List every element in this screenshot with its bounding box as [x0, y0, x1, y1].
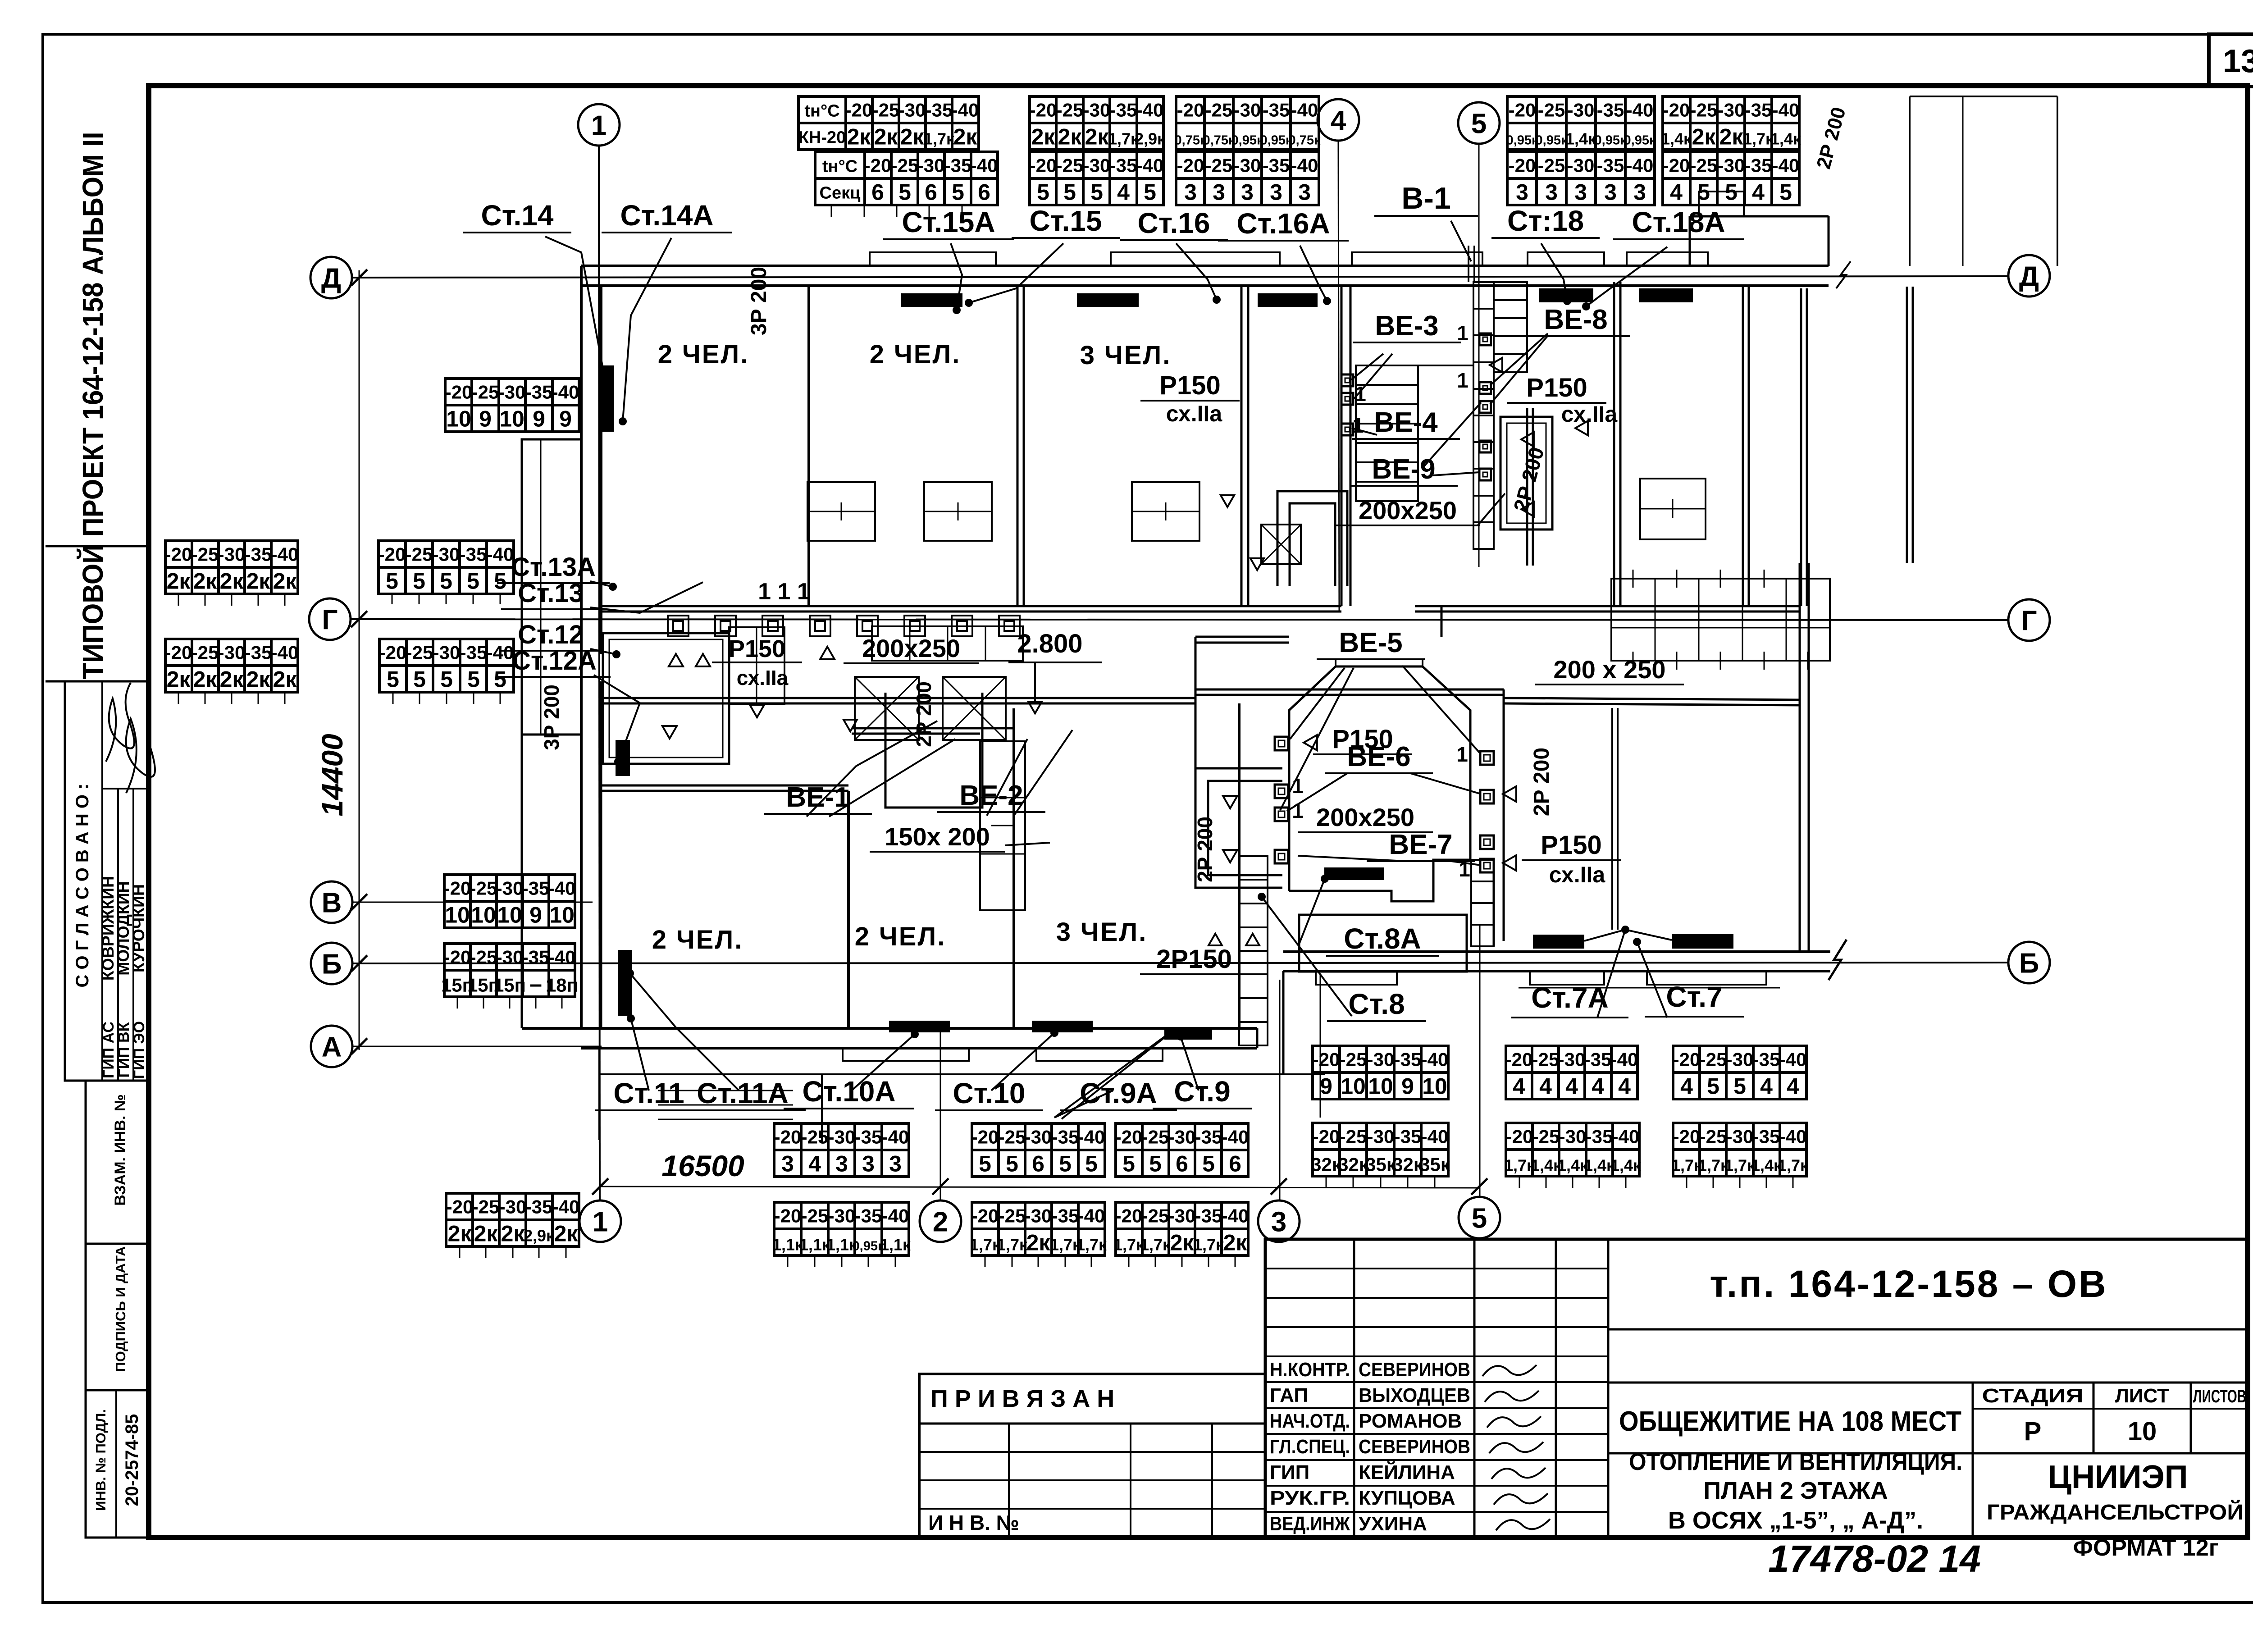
svg-text:-30: -30 — [917, 155, 945, 176]
leader St.16 — [1176, 243, 1217, 300]
svg-text:-40: -40 — [1421, 1126, 1449, 1147]
svg-text:2Р 200: 2Р 200 — [1530, 748, 1554, 816]
svg-text:-40: -40 — [271, 544, 299, 565]
label St.8 — [1327, 988, 1426, 1021]
svg-text:10: 10 — [1422, 1074, 1447, 1099]
svg-text:-20: -20 — [1313, 1126, 1340, 1147]
entrance steps — [658, 1090, 793, 1091]
P-duct right stair niche — [1500, 417, 1552, 529]
svg-text:-35: -35 — [855, 1127, 882, 1148]
svg-text:-35: -35 — [926, 100, 953, 121]
svg-text:1,4к: 1,4к — [1610, 1156, 1642, 1175]
svg-text:1: 1 — [1457, 321, 1469, 345]
svg-text:3: 3 — [1213, 180, 1225, 205]
svg-text:-30: -30 — [1567, 100, 1595, 121]
axis circle 3 bottom — [1258, 1200, 1300, 1242]
svg-text:-30: -30 — [218, 544, 246, 565]
leader V-1 — [1451, 221, 1471, 261]
vent shaft column — [1473, 282, 1494, 549]
svg-text:-40: -40 — [1291, 100, 1318, 121]
step wall between bottom sections — [1282, 971, 1285, 1074]
svg-text:СЕВЕРИНОВ: СЕВЕРИНОВ — [1359, 1436, 1470, 1458]
svg-text:-40: -40 — [1136, 100, 1164, 121]
svg-text:3: 3 — [1270, 180, 1282, 205]
label 200x250 u — [844, 634, 979, 663]
svg-text:2к: 2к — [1719, 124, 1744, 150]
closet box 1 — [807, 482, 875, 541]
svg-text:4: 4 — [1513, 1074, 1525, 1099]
svg-text:2к: 2к — [246, 667, 271, 692]
svg-text:0,95к: 0,95к — [1506, 133, 1538, 148]
svg-text:1: 1 — [1457, 369, 1469, 392]
svg-text:200х250: 200х250 — [1316, 803, 1414, 831]
svg-text:-30: -30 — [828, 1127, 856, 1148]
svg-text:-20: -20 — [1177, 100, 1204, 121]
vent squares VE567 left column — [1275, 737, 1288, 750]
axis circle A left — [311, 1026, 352, 1067]
svg-text:ВЕ-9: ВЕ-9 — [1372, 454, 1435, 485]
label St.13A — [497, 552, 610, 583]
svg-text:ОБЩЕЖИТИЕ НА 108 МЕСТ: ОБЩЕЖИТИЕ НА 108 МЕСТ — [1619, 1406, 1961, 1437]
svg-text:ГАП: ГАП — [1270, 1384, 1308, 1406]
svg-text:2к: 2к — [874, 124, 898, 150]
axis line 2 vertical — [940, 1032, 941, 1200]
svg-text:6: 6 — [871, 180, 884, 205]
svg-text:5: 5 — [1059, 1151, 1072, 1177]
svg-text:Ст.13: Ст.13 — [518, 579, 584, 608]
svg-text:3Р 200: 3Р 200 — [540, 685, 563, 750]
axis circle V left — [311, 881, 352, 923]
svg-text:5: 5 — [494, 667, 506, 692]
label St.12 — [501, 620, 600, 651]
svg-text:5: 5 — [467, 667, 480, 692]
label VE-4 — [1352, 407, 1460, 439]
svg-text:-35: -35 — [1195, 1205, 1222, 1227]
svg-text:ПЛАН 2 ЭТАЖА: ПЛАН 2 ЭТАЖА — [1703, 1477, 1888, 1504]
svg-text:-35: -35 — [944, 155, 972, 176]
svg-text:-40: -40 — [1222, 1205, 1249, 1227]
svg-text:ГИП АС: ГИП АС — [100, 1022, 117, 1078]
svg-text:3: 3 — [1604, 180, 1617, 205]
svg-text:1 1 1: 1 1 1 — [758, 579, 810, 605]
label St.16 — [1120, 207, 1228, 240]
svg-text:5: 5 — [440, 667, 453, 692]
bar link 7 — [1584, 930, 1672, 941]
svg-text:ВЗАМ. ИНВ. №: ВЗАМ. ИНВ. № — [112, 1094, 129, 1206]
table bot10 — [1506, 1123, 1639, 1176]
svg-text:-40: -40 — [1222, 1127, 1249, 1148]
axis circle D right — [2008, 255, 2050, 297]
label St.12A — [498, 646, 611, 677]
svg-text:-20: -20 — [1177, 155, 1204, 176]
svg-text:tн°C: tн°C — [822, 157, 857, 176]
svg-text:-25: -25 — [192, 544, 219, 565]
label 2R150 — [1140, 945, 1248, 974]
svg-text:-35: -35 — [522, 878, 550, 899]
leader St.12A — [594, 675, 640, 762]
svg-text:6: 6 — [925, 180, 937, 205]
room1 top wall — [599, 785, 848, 787]
svg-text:18п: 18п — [546, 975, 578, 996]
svg-text:2: 2 — [933, 1206, 948, 1237]
svg-text:-40: -40 — [487, 642, 514, 663]
svg-text:-20: -20 — [1115, 1127, 1143, 1148]
svg-text:-20: -20 — [1313, 1049, 1340, 1070]
svg-text:5: 5 — [413, 569, 425, 594]
svg-text:10: 10 — [445, 903, 470, 928]
svg-text:5: 5 — [1149, 1151, 1162, 1177]
right rooms east wall (double) — [1906, 287, 1908, 563]
svg-text:3 ЧЕЛ.: 3 ЧЕЛ. — [1056, 917, 1148, 947]
svg-text:ГИП ЭО: ГИП ЭО — [131, 1021, 148, 1079]
svg-text:2к: 2к — [847, 124, 871, 150]
leader St.9A — [1054, 1033, 1170, 1118]
svg-text:Ст.14А: Ст.14А — [620, 199, 713, 232]
table left4 — [379, 639, 514, 692]
label VE-7 — [1367, 829, 1475, 861]
svg-text:-35: -35 — [522, 947, 550, 968]
svg-text:КУПЦОВА: КУПЦОВА — [1359, 1487, 1455, 1509]
svg-text:2 ЧЕЛ.: 2 ЧЕЛ. — [855, 922, 946, 951]
svg-text:Г: Г — [322, 604, 337, 635]
label R150 ve7 — [1522, 831, 1621, 860]
leader VE-8 — [1490, 333, 1548, 385]
label 200x250 ve6 — [1298, 803, 1433, 832]
svg-text:Р150: Р150 — [1159, 371, 1220, 400]
leader VE-9b — [1433, 472, 1479, 475]
radiator St7 — [1672, 934, 1733, 949]
vertical dimension line 14400 — [359, 270, 360, 1050]
svg-text:9: 9 — [529, 903, 542, 928]
table left1 — [165, 541, 298, 594]
svg-text:П Р И В Я З А Н: П Р И В Я З А Н — [930, 1385, 1114, 1412]
label St.15A — [883, 206, 1014, 239]
table bot9 — [1506, 1046, 1637, 1099]
svg-text:-30: -30 — [499, 1196, 527, 1218]
svg-text:4: 4 — [1331, 105, 1346, 136]
table left2 — [165, 639, 298, 692]
svg-text:ГЛ.СПЕЦ.: ГЛ.СПЕЦ. — [1270, 1436, 1350, 1458]
label St.9A — [1060, 1077, 1177, 1110]
svg-text:Р150: Р150 — [1541, 831, 1601, 860]
svg-text:-40: -40 — [1611, 1049, 1638, 1070]
leader St.11A — [630, 973, 739, 1091]
svg-text:-20: -20 — [1509, 155, 1536, 176]
svg-text:РОМАНОВ: РОМАНОВ — [1359, 1410, 1462, 1432]
svg-text:-30: -30 — [1083, 155, 1111, 176]
svg-text:4: 4 — [1117, 180, 1130, 205]
svg-text:5: 5 — [1707, 1074, 1719, 1099]
radiator St12A v — [616, 740, 630, 776]
leader VE-7 — [1298, 856, 1397, 861]
svg-text:tн°C: tн°C — [804, 102, 839, 121]
svg-text:ГИП ВК: ГИП ВК — [115, 1022, 132, 1077]
svg-text:-35: -35 — [525, 1196, 553, 1218]
svg-text:4: 4 — [1592, 1074, 1604, 1099]
axis line 5 vertical bottom — [1479, 924, 1481, 1197]
leader St.15 — [969, 243, 1063, 303]
svg-text:Д: Д — [321, 263, 341, 294]
margin divider line — [46, 545, 149, 548]
table bot5 — [972, 1202, 1105, 1255]
label St.11 — [595, 1077, 703, 1110]
svg-text:Р: Р — [2024, 1417, 2042, 1446]
table KN-20 — [798, 96, 979, 150]
table Sekts — [815, 152, 998, 205]
label St.15 — [1012, 205, 1120, 238]
svg-text:-35: -35 — [1052, 1127, 1079, 1148]
leader St.9 — [1181, 1036, 1199, 1091]
svg-text:Ст.12: Ст.12 — [518, 620, 584, 649]
svg-text:-40: -40 — [1772, 155, 1800, 176]
svg-text:-25: -25 — [192, 642, 219, 663]
svg-text:-40: -40 — [1779, 1049, 1807, 1070]
svg-text:5: 5 — [1085, 1151, 1098, 1177]
svg-text:10: 10 — [446, 406, 471, 432]
svg-text:сх.IIа: сх.IIа — [1166, 401, 1223, 426]
axis circle B left — [311, 943, 352, 984]
svg-text:6: 6 — [978, 180, 990, 205]
left exterior wall upper — [580, 266, 583, 1028]
svg-text:16500: 16500 — [661, 1149, 744, 1182]
right flue shaft outline — [1909, 96, 1911, 266]
svg-text:Ст.7: Ст.7 — [1666, 981, 1722, 1013]
axis line V — [352, 902, 593, 903]
label R150 ve5 — [1313, 725, 1412, 754]
svg-text:-35: -35 — [1052, 1205, 1079, 1227]
axis line B — [352, 963, 2008, 963]
svg-text:Ст.18А: Ст.18А — [1632, 206, 1725, 238]
svg-text:КУРОЧКИН: КУРОЧКИН — [129, 884, 148, 972]
svg-text:150х 200: 150х 200 — [885, 822, 990, 851]
left wall lower segment — [600, 681, 602, 1028]
svg-text:-30: -30 — [1234, 155, 1261, 176]
svg-text:ВЕ-5: ВЕ-5 — [1339, 627, 1402, 658]
svg-text:35к: 35к — [1419, 1154, 1450, 1175]
table left5 — [445, 379, 579, 432]
svg-text:3: 3 — [1184, 180, 1197, 205]
stamp box vzam — [86, 1081, 149, 1244]
top wall break mark — [1836, 261, 1851, 288]
svg-text:5: 5 — [1779, 180, 1792, 205]
svg-text:ПОДПИСЬ И ДАТА: ПОДПИСЬ И ДАТА — [113, 1246, 128, 1372]
svg-text:-25: -25 — [801, 1127, 829, 1148]
svg-text:ЛИСТОВ: ЛИСТОВ — [2193, 1387, 2246, 1406]
svg-text:-20: -20 — [845, 100, 873, 121]
table top3b — [1176, 152, 1319, 205]
table bot4 — [774, 1202, 909, 1255]
closet band left corridor — [872, 626, 1023, 661]
table top5a — [1663, 96, 1799, 150]
svg-text:-40: -40 — [1779, 1126, 1807, 1147]
svg-text:Ст.13А: Ст.13А — [511, 552, 596, 582]
svg-text:Б: Б — [2019, 948, 2039, 979]
svg-text:4: 4 — [1760, 1074, 1773, 1099]
P-duct left mid — [885, 693, 982, 808]
svg-text:-20: -20 — [971, 1127, 999, 1148]
duct line below St8A — [1320, 973, 1321, 1118]
label 150x200 — [870, 822, 1005, 852]
svg-text:-25: -25 — [470, 947, 497, 968]
svg-text:1,7к: 1,7к — [997, 1236, 1028, 1254]
axis line 5 vertical top — [1478, 144, 1480, 567]
svg-text:-30: -30 — [1025, 1127, 1052, 1148]
svg-text:-20: -20 — [1030, 155, 1057, 176]
svg-text:4: 4 — [808, 1151, 821, 1177]
svg-text:5: 5 — [1006, 1151, 1018, 1177]
corridor lower wall — [601, 697, 1195, 699]
svg-text:1,7к: 1,7к — [1140, 1236, 1171, 1254]
svg-text:5: 5 — [387, 667, 399, 692]
svg-text:32к: 32к — [1311, 1154, 1342, 1175]
label VE-6 — [1325, 741, 1433, 773]
svg-text:4: 4 — [1539, 1074, 1552, 1099]
V-1 duct lines — [1468, 246, 1469, 282]
svg-text:ГРАЖДАНСЕЛЬСТРОЙ: ГРАЖДАНСЕЛЬСТРОЙ — [1987, 1500, 2244, 1524]
svg-text:1: 1 — [1352, 414, 1364, 437]
axis circle D left — [310, 257, 352, 298]
svg-text:ВЕ-1: ВЕ-1 — [786, 782, 849, 813]
table bot8 — [1313, 1123, 1448, 1176]
svg-text:-35: -35 — [245, 544, 272, 565]
svg-text:-20: -20 — [1663, 155, 1690, 176]
P-duct upper stair — [1277, 491, 1347, 586]
approval stamp box — [65, 681, 149, 1081]
partition lower rooms a — [847, 791, 850, 1028]
label St.8A — [1326, 922, 1439, 956]
svg-text:-20: -20 — [774, 1205, 802, 1227]
svg-text:-30: -30 — [1367, 1126, 1395, 1147]
svg-text:-25: -25 — [999, 1127, 1026, 1148]
leader VE-9 — [1424, 402, 1481, 466]
svg-text:2Р150: 2Р150 — [1156, 945, 1232, 974]
svg-text:-25: -25 — [1056, 155, 1084, 176]
svg-text:В-1: В-1 — [1401, 181, 1451, 215]
svg-text:-25: -25 — [999, 1205, 1026, 1227]
table top2b — [1030, 152, 1163, 205]
axis circle G right — [2008, 599, 2050, 641]
leader VE-2b — [1014, 730, 1072, 816]
vestibule walls mid — [1503, 689, 1505, 941]
label St.11A — [680, 1077, 806, 1110]
svg-text:1,1к: 1,1к — [799, 1236, 830, 1254]
leader St.10 — [991, 1033, 1054, 1091]
svg-text:1,7к: 1,7к — [1076, 1236, 1107, 1254]
svg-text:5: 5 — [440, 569, 452, 594]
svg-text:Секц: Секц — [820, 184, 861, 203]
axis circle 4 top — [1318, 99, 1359, 141]
svg-text:2,9к: 2,9к — [524, 1227, 555, 1245]
axis circle 1 bottom — [579, 1200, 621, 1242]
label St.14 — [463, 199, 571, 233]
svg-text:-25: -25 — [891, 155, 919, 176]
table top2a — [1030, 96, 1163, 150]
svg-text:2Р 200: 2Р 200 — [1193, 817, 1217, 882]
svg-text:2к: 2к — [193, 569, 218, 594]
radiator St14 v — [599, 365, 614, 432]
svg-text:2к: 2к — [953, 124, 978, 150]
svg-text:-25: -25 — [801, 1205, 829, 1227]
svg-text:1,4к: 1,4к — [1770, 130, 1801, 148]
svg-text:2к: 2к — [167, 667, 191, 692]
svg-text:Ст.16: Ст.16 — [1138, 207, 1210, 239]
label 200x250 r — [1336, 496, 1480, 525]
svg-text:-30: -30 — [1718, 155, 1745, 176]
svg-text:1,4к: 1,4к — [1661, 130, 1692, 148]
svg-text:-30: -30 — [828, 1205, 856, 1227]
svg-text:0,95к: 0,95к — [1231, 133, 1263, 148]
svg-text:-40: -40 — [552, 382, 579, 403]
svg-text:С О Г Л А С О В А Н О :: С О Г Л А С О В А Н О : — [73, 784, 92, 988]
svg-text:-30: -30 — [898, 100, 926, 121]
svg-text:20-2574-85: 20-2574-85 — [122, 1414, 142, 1506]
lower entrance walls — [598, 1048, 600, 1140]
svg-text:-20: -20 — [444, 878, 471, 899]
svg-text:-35: -35 — [1584, 1049, 1612, 1070]
closet box right rooms — [1640, 479, 1706, 539]
svg-text:-40: -40 — [1612, 1126, 1640, 1147]
svg-text:УХИНА: УХИНА — [1359, 1513, 1427, 1535]
leader St.8 — [1262, 897, 1352, 1016]
svg-text:10: 10 — [471, 903, 496, 928]
leader VE-5b — [1280, 668, 1354, 810]
svg-text:-25: -25 — [1690, 155, 1718, 176]
axis circle 5 top — [1458, 102, 1500, 144]
table left6 — [444, 875, 575, 928]
svg-text:5: 5 — [467, 569, 479, 594]
svg-text:-20: -20 — [379, 544, 406, 565]
leader VE-1b — [829, 739, 955, 817]
svg-text:ТИПОВОЙ ПРОЕКТ 164-12-158: ТИПОВОЙ ПРОЕКТ 164-12-158 АЛЬБОМ II — [76, 132, 109, 680]
svg-text:3: 3 — [1241, 180, 1254, 205]
title block rows left part — [1265, 1268, 1608, 1269]
svg-text:-35: -35 — [1753, 1049, 1780, 1070]
svg-text:3: 3 — [1545, 180, 1558, 205]
svg-text:6: 6 — [1032, 1151, 1044, 1177]
label R150 r8 — [1507, 373, 1606, 403]
svg-text:5: 5 — [1471, 108, 1487, 139]
leader St.16A — [1300, 246, 1327, 301]
svg-text:6: 6 — [1229, 1151, 1241, 1177]
label VE-9 — [1350, 454, 1458, 486]
partition upper room 1-2 — [807, 286, 810, 606]
svg-text:3: 3 — [1516, 180, 1528, 205]
stair flight St8 — [1239, 856, 1268, 1045]
svg-text:-40: -40 — [1421, 1049, 1449, 1070]
stair landing line — [1356, 365, 1473, 366]
svg-text:-25: -25 — [1532, 1126, 1560, 1147]
svg-text:-30: -30 — [1168, 1127, 1196, 1148]
vent squares VE567 right column — [1480, 751, 1494, 765]
svg-text:Г: Г — [2021, 605, 2037, 636]
svg-text:сх.IIа: сх.IIа — [1561, 402, 1618, 427]
svg-text:-20: -20 — [1505, 1049, 1533, 1070]
svg-text:200 х 250: 200 х 250 — [1553, 655, 1665, 684]
vent triangles — [1490, 358, 1502, 372]
svg-text:0,95к: 0,95к — [1536, 133, 1568, 148]
label St.8A box — [1299, 915, 1467, 972]
svg-text:2к: 2к — [448, 1221, 472, 1246]
leader VE-5c — [1402, 666, 1480, 753]
corridor upper wall — [601, 605, 1341, 607]
table top5b — [1663, 152, 1799, 205]
svg-text:ОТОПЛЕНИЕ И ВЕНТИЛЯЦИЯ.: ОТОПЛЕНИЕ И ВЕНТИЛЯЦИЯ. — [1629, 1448, 1962, 1475]
partition mid right thin — [1611, 708, 1613, 930]
radiator St18 — [1539, 288, 1593, 302]
table left7 — [444, 944, 575, 997]
table bot1 — [774, 1123, 909, 1177]
label St.18A — [1613, 206, 1744, 239]
